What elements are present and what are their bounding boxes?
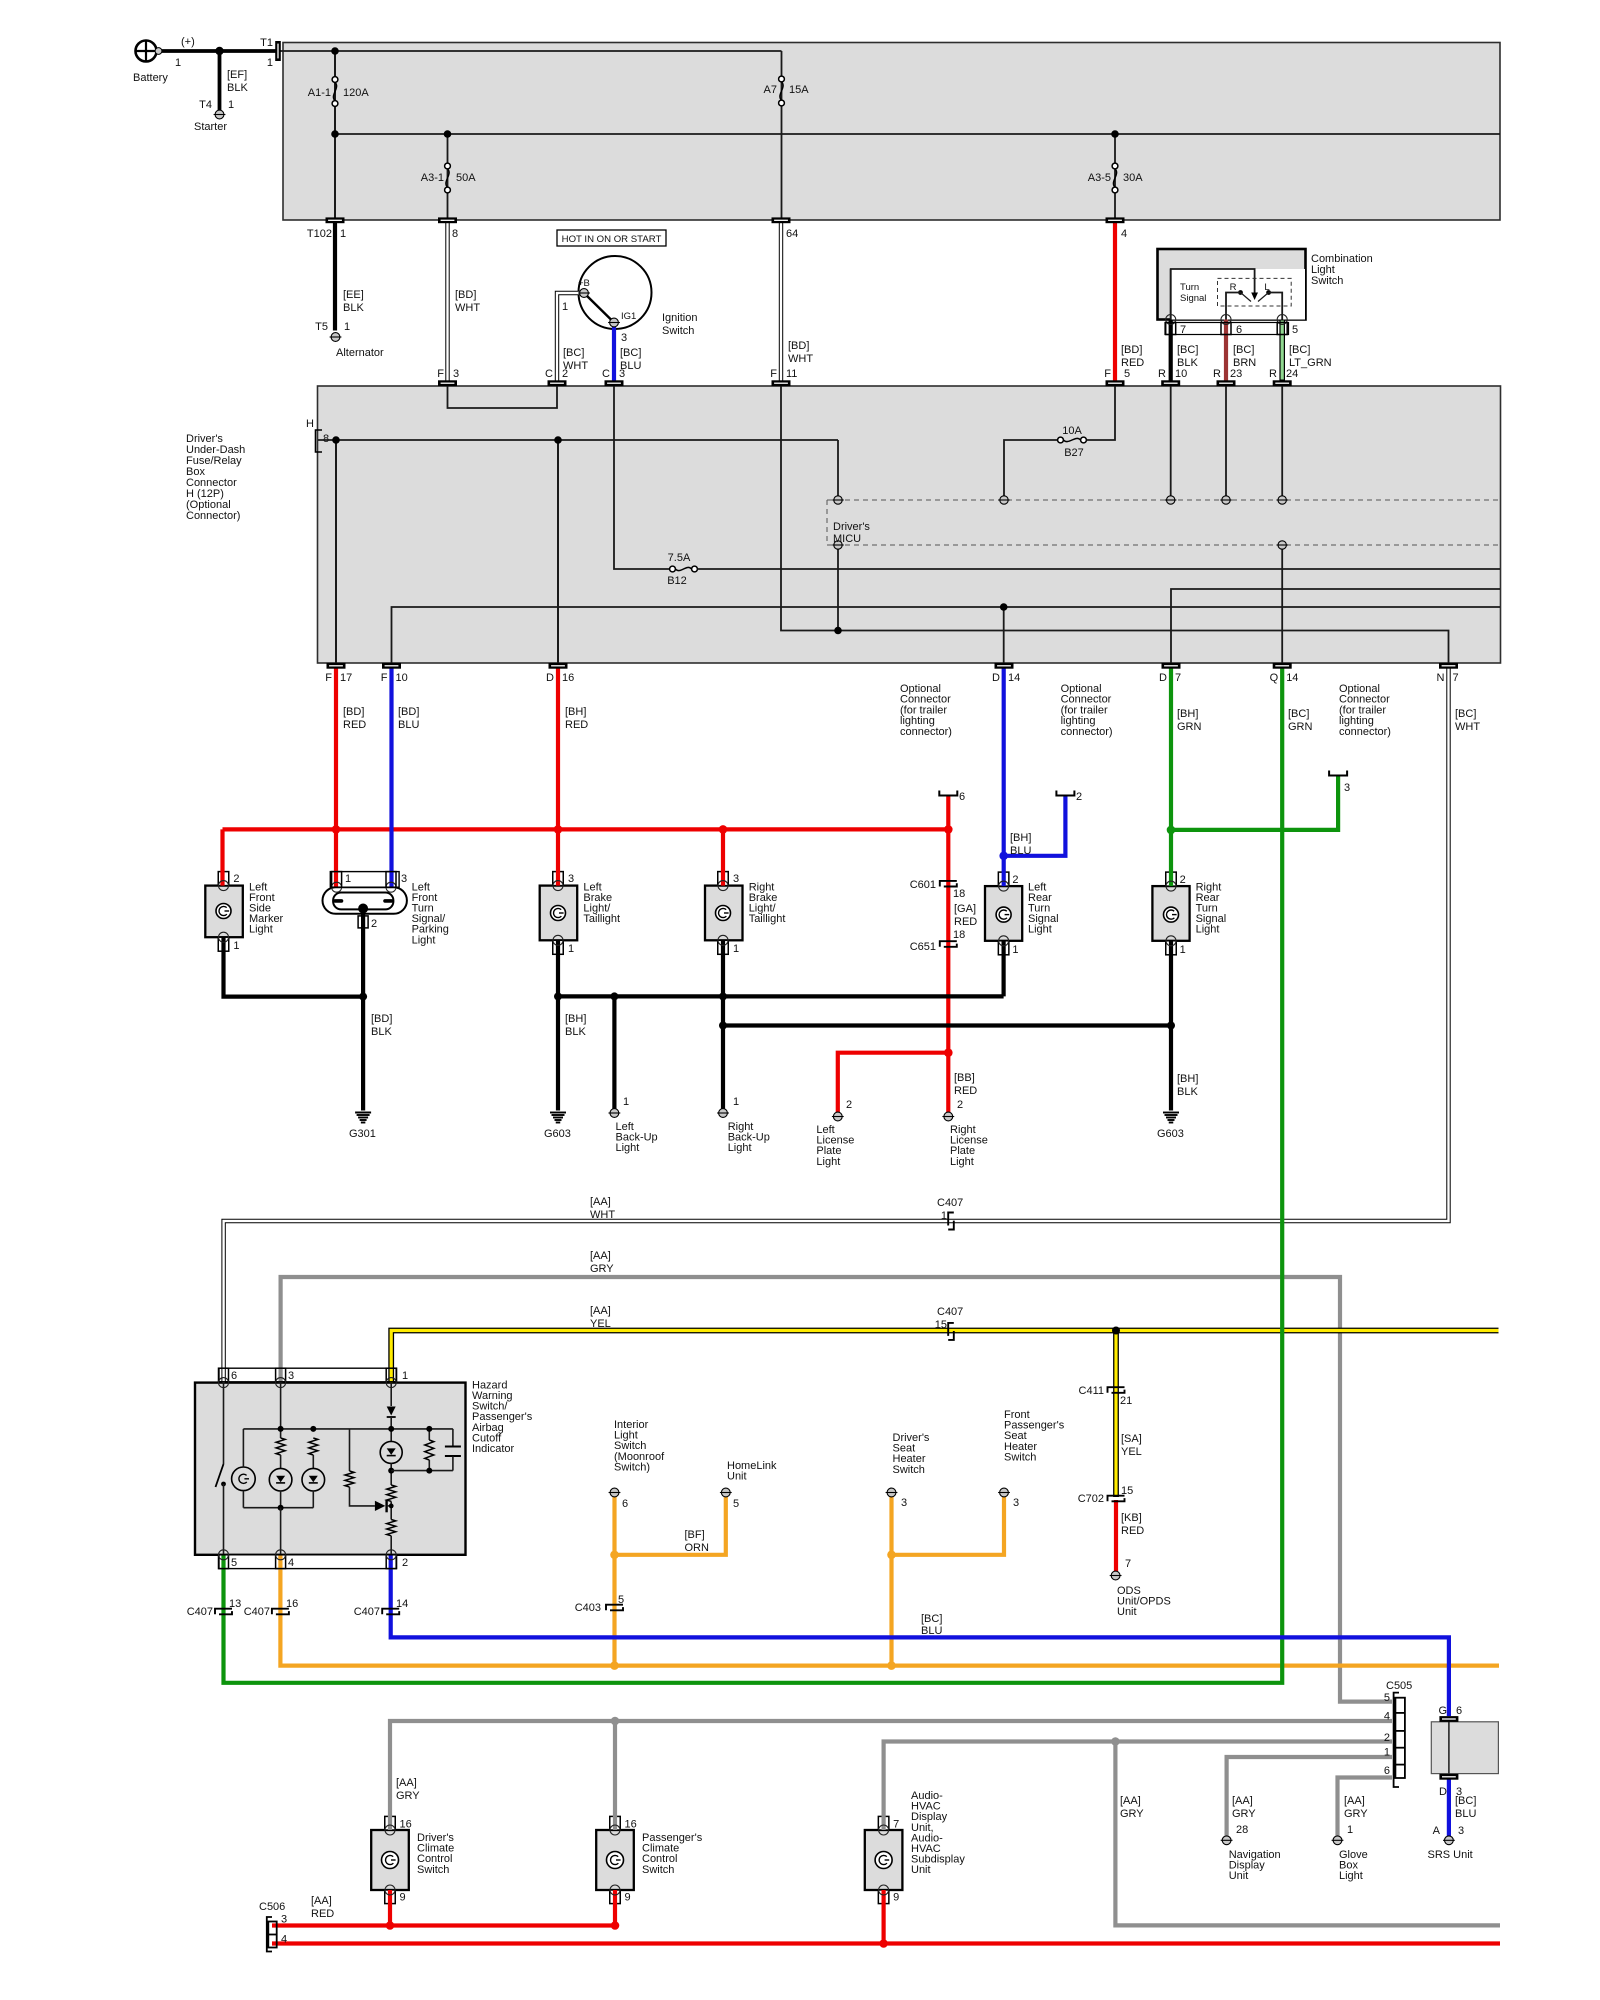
wire [BD] WHT 64 to F11 [779, 223, 783, 381]
connector D7 [1162, 663, 1181, 669]
connector 4 [1106, 217, 1125, 223]
pin box comb 5 [1277, 323, 1287, 335]
svg-text:6: 6 [231, 1370, 237, 1382]
wire turn pin1 drop [334, 829, 338, 887]
svg-text:R: R [1230, 282, 1237, 293]
svg-text:GRY: GRY [1232, 1808, 1256, 1820]
svg-text:Taillight: Taillight [583, 913, 620, 925]
wire [BC] BLU hazard pin2 run [391, 1555, 1449, 1716]
svg-text:[BC]: [BC] [1233, 344, 1254, 356]
bulb (right rear turn) [1164, 907, 1179, 922]
wire opt conn 2 branch [1004, 796, 1066, 856]
svg-text:[BC]: [BC] [1288, 708, 1309, 720]
connector R10 [1161, 380, 1180, 386]
svg-text:Light: Light [728, 1142, 752, 1154]
svg-text:L: L [1264, 282, 1269, 293]
wire: A3-1 fuse drop [447, 134, 449, 218]
svg-text:F: F [437, 368, 444, 380]
wire [AA] GRY climate bus to C505 pin4 [390, 1721, 1392, 1830]
filament tick left [335, 899, 342, 903]
svg-text:Switch: Switch [893, 1464, 925, 1476]
svg-text:IG1: IG1 [621, 311, 636, 322]
junction orange seat [887, 1551, 896, 1560]
junction orange interior [610, 1551, 619, 1560]
svg-text:Light: Light [412, 934, 436, 946]
pin box 1 lbrake [553, 940, 564, 954]
svg-text:[AA]: [AA] [1344, 1795, 1365, 1807]
svg-text:15: 15 [935, 1319, 947, 1331]
svg-text:Switch: Switch [662, 325, 694, 337]
hazard pin box 6 [219, 1368, 229, 1382]
junction lbrake bus [554, 992, 562, 1000]
hazard bottom strip [219, 1555, 397, 1569]
optional connector bracket 3 [1329, 771, 1347, 776]
MICU dashed left edge [826, 500, 828, 545]
transistor base bar [385, 1500, 387, 1513]
pin ring 2 lrear [999, 881, 1009, 891]
terminal ODS unit [1111, 1571, 1120, 1580]
connector C505 [1394, 1693, 1399, 1787]
svg-text:1: 1 [175, 57, 181, 69]
svg-text:HOT IN ON OR START: HOT IN ON OR START [562, 234, 662, 245]
hazard switch blade [216, 1464, 224, 1487]
svg-text:BLK: BLK [343, 302, 364, 314]
junction bus1 at A1-1 [331, 47, 339, 55]
svg-text:2: 2 [1076, 791, 1082, 803]
hazard pin box 2 [386, 1555, 396, 1569]
ground G603 left [550, 1112, 566, 1114]
svg-text:2: 2 [1180, 874, 1186, 886]
svg-text:1: 1 [1347, 1824, 1353, 1836]
svg-text:B12: B12 [667, 575, 687, 587]
svg-text:1: 1 [340, 228, 346, 240]
svg-text:YEL: YEL [590, 1318, 611, 1330]
turn signal inner white panel [1171, 269, 1305, 320]
hazard switch contact [221, 1482, 226, 1487]
junction rbrake bus1 [719, 992, 727, 1000]
resistor R3 [345, 1471, 354, 1487]
resistor R4 [387, 1485, 396, 1501]
svg-text:C407: C407 [354, 1606, 380, 1618]
svg-text:G603: G603 [544, 1128, 571, 1140]
svg-text:1: 1 [733, 943, 739, 955]
wire pin6 to R contact [1226, 293, 1241, 320]
svg-text:A7: A7 [764, 84, 777, 96]
connector F3 [438, 380, 457, 386]
connector D3 [1439, 1774, 1458, 1780]
pin box 3 front turn [386, 872, 396, 888]
MICU terminal 1 [834, 496, 842, 504]
wire rrear turn ground [1169, 941, 1173, 1111]
svg-text:3: 3 [453, 368, 459, 380]
pin ring 3 front turn [386, 882, 396, 892]
fuse A1-1 120A [332, 77, 338, 83]
svg-text:3: 3 [1458, 1825, 1464, 1837]
pin ring 1 rrear [1166, 936, 1176, 946]
ground G603 right [1163, 1112, 1179, 1114]
bus B12 to right edge [698, 568, 1501, 570]
junction marker/lamp ground [359, 993, 367, 1001]
wire battery positive to T1 [160, 49, 277, 53]
svg-text:18: 18 [953, 929, 965, 941]
junction bus2 at A3-1 [444, 130, 452, 138]
connector C3 [605, 380, 624, 386]
hazard pin ring 3 [276, 1378, 286, 1388]
LED3 airbag cutoff indicator [380, 1441, 402, 1463]
svg-text:1: 1 [267, 57, 273, 69]
pin ring 1 rbrake [718, 935, 728, 945]
svg-text:Taillight: Taillight [749, 913, 786, 925]
svg-text:connector): connector) [1061, 726, 1113, 738]
svg-text:BLU: BLU [398, 719, 419, 731]
hazard wire pin5 [223, 1484, 225, 1555]
wire [BC] BLU to SRS unit [1447, 1780, 1451, 1837]
wire seat heater driver drop [889, 1497, 893, 1666]
svg-text:64: 64 [786, 228, 798, 240]
pin ring 3 lbrake [553, 881, 563, 891]
hazard lower right rail [391, 1470, 453, 1472]
svg-text:[BC]: [BC] [921, 1613, 942, 1625]
inline connector C411 [1108, 1387, 1125, 1393]
svg-text:Light: Light [616, 1142, 640, 1154]
wire [AA] GRY hazard pin3 to C505 pin5 [281, 1277, 1392, 1702]
svg-text:WHT: WHT [455, 302, 480, 314]
svg-text:[SA]: [SA] [1121, 1433, 1142, 1445]
svg-text:Light: Light [1028, 924, 1052, 936]
wire through SRS box [1448, 1722, 1450, 1774]
svg-text:C601: C601 [910, 879, 936, 891]
svg-text:connector): connector) [900, 726, 952, 738]
svg-text:1: 1 [568, 943, 574, 955]
connector F17 [327, 663, 346, 669]
svg-text:Alternator: Alternator [336, 347, 384, 359]
wire [BD] BLU F10 [389, 669, 393, 888]
terminal +B [580, 289, 589, 298]
wire Q14 drop [1281, 549, 1283, 663]
junction battery/starter [215, 47, 223, 55]
wire [AA] GRY branch to bottom right [1115, 1742, 1500, 1926]
pin ring 3 rbrake [718, 881, 728, 891]
svg-text:C702: C702 [1078, 1493, 1104, 1505]
svg-text:(+): (+) [181, 36, 195, 48]
right brake light box [705, 886, 743, 941]
junction bus2 at A3-5 [1111, 130, 1119, 138]
left front side marker light box [205, 886, 243, 938]
svg-text:5: 5 [1292, 324, 1298, 336]
MICU terminal 6 [834, 541, 842, 549]
wire pin7 inside box [1170, 269, 1172, 320]
svg-text:[AA]: [AA] [590, 1250, 611, 1262]
bulb (left rear turn) [996, 907, 1011, 922]
svg-text:30A: 30A [1123, 172, 1143, 184]
svg-text:2: 2 [1384, 1732, 1390, 1744]
svg-text:6: 6 [622, 1498, 628, 1510]
svg-text:MICU: MICU [833, 533, 861, 545]
wire LED1 to bottom rail [280, 1491, 282, 1508]
svg-text:3: 3 [568, 873, 574, 885]
svg-text:Switch): Switch) [614, 1461, 650, 1473]
svg-text:18: 18 [953, 888, 965, 900]
wire [BC] WHT N7 to hazard pin 6 [224, 669, 1449, 1383]
svg-text:50A: 50A [456, 172, 476, 184]
svg-text:Driver's: Driver's [833, 521, 870, 533]
switch blade R [1241, 293, 1252, 302]
pin ring 1 marker [219, 932, 229, 942]
wire R3 to diode [350, 1487, 375, 1506]
svg-text:4: 4 [288, 1557, 294, 1569]
svg-text:Light: Light [816, 1156, 840, 1168]
hazard pin ring 6 [219, 1378, 229, 1388]
MICU dashed line 2 [827, 544, 1500, 546]
junction yellow branch [1112, 1327, 1120, 1335]
svg-text:[AA]: [AA] [1120, 1795, 1141, 1807]
inline connector C407 pin16 [272, 1609, 289, 1615]
pin box 7 audio [878, 1816, 889, 1830]
svg-text:T102: T102 [307, 228, 332, 240]
terminal right license [944, 1112, 953, 1121]
ground G301 [355, 1112, 371, 1114]
svg-text:[BH]: [BH] [1010, 832, 1031, 844]
pin box comb 6 [1221, 323, 1231, 335]
MICU terminal 2 [1000, 496, 1008, 504]
connector D16 [549, 663, 568, 669]
svg-text:BLK: BLK [1177, 1086, 1198, 1098]
svg-text:Q: Q [1270, 672, 1279, 684]
junction D14/bus [1000, 603, 1008, 611]
junction gray climate [611, 1717, 620, 1726]
junction rail pin3 [278, 1426, 284, 1432]
fuse B12 7.5A [670, 566, 676, 572]
svg-text:D: D [1439, 1786, 1447, 1798]
svg-text:8: 8 [323, 433, 329, 445]
junction green opt [1167, 826, 1176, 835]
svg-text:[BD]: [BD] [788, 340, 809, 352]
pin box 1 rbrake [718, 940, 729, 954]
svg-text:Switch: Switch [417, 1864, 449, 1876]
label box HOT IN ON OR START [557, 230, 666, 246]
wire rbrake to right backup [721, 940, 725, 1108]
wire R1 to LED1 [280, 1455, 282, 1469]
svg-text:C411: C411 [1079, 1385, 1104, 1397]
pin box 9 passenger climate [610, 1890, 621, 1904]
terminal T5 alternator [331, 333, 340, 342]
ignition switch lever [584, 293, 614, 323]
pin box 1 lrear [998, 941, 1009, 955]
fuse A3-5 30A [1112, 163, 1118, 169]
svg-text:1: 1 [941, 1210, 947, 1222]
svg-text:C407: C407 [937, 1306, 963, 1318]
hazard pin ring 2 [386, 1550, 396, 1560]
wire: A7 fuse drop [781, 51, 783, 218]
wire R5 to pin2 [390, 1536, 392, 1555]
junction backup left [610, 992, 618, 1000]
svg-text:14: 14 [1008, 672, 1020, 684]
junction orange bus seat [887, 1661, 896, 1670]
svg-text:Switch: Switch [642, 1864, 674, 1876]
svg-text:D: D [1159, 672, 1167, 684]
svg-text:A: A [1433, 1825, 1441, 1837]
diode D1 [387, 1407, 396, 1416]
pin ring passenger climate bottom [610, 1885, 620, 1895]
svg-text:3: 3 [1013, 1497, 1019, 1509]
svg-text:RED: RED [311, 1908, 334, 1920]
junction D16/H bus [554, 436, 562, 444]
svg-text:G301: G301 [349, 1128, 376, 1140]
svg-text:RED: RED [343, 719, 366, 731]
svg-text:SRS Unit: SRS Unit [1428, 1849, 1473, 1861]
inline connector C407 pin14 [382, 1609, 399, 1615]
svg-text:10: 10 [396, 672, 408, 684]
svg-text:Unit: Unit [911, 1864, 931, 1876]
svg-text:Indicator: Indicator [472, 1443, 515, 1455]
hazard pin ring 4 [276, 1550, 286, 1560]
junction transistor node [389, 1504, 394, 1509]
junction red driver climate [386, 1921, 395, 1930]
svg-text:[GA]: [GA] [954, 903, 976, 915]
connector H bracket [316, 430, 323, 452]
svg-text:4: 4 [1384, 1711, 1390, 1723]
pin box 2 rrear [1166, 872, 1177, 886]
wire R6 top lead [428, 1429, 430, 1440]
connector T1 [275, 41, 281, 61]
optional connector bracket 6 [939, 791, 957, 796]
wire to G301 [361, 997, 365, 1111]
hazard lamp bottom lead [242, 1491, 244, 1508]
wire: battery bus T1 to A7 [278, 50, 782, 52]
switch blade L [1258, 293, 1269, 302]
resistor R1 [276, 1438, 285, 1455]
svg-text:7: 7 [1453, 672, 1459, 684]
pin ring 1 lrear [999, 936, 1009, 946]
wire R4 to R5 [390, 1501, 392, 1519]
wire rbrake pin3 drop [721, 829, 725, 885]
svg-text:[BC]: [BC] [1455, 1795, 1476, 1807]
svg-text:14: 14 [396, 1598, 408, 1610]
svg-text:6: 6 [959, 791, 965, 803]
svg-text:[AA]: [AA] [1232, 1795, 1253, 1807]
svg-text:9: 9 [625, 1892, 631, 1904]
wire MICU drop from H bus [837, 440, 839, 496]
junction F17/H bus [332, 436, 340, 444]
svg-text:1: 1 [345, 873, 351, 885]
junction blue opt [999, 852, 1008, 861]
pin box 1 front turn [332, 872, 342, 888]
bus D7 [1171, 589, 1500, 663]
svg-text:C506: C506 [259, 1901, 285, 1913]
connector Q14 [1273, 663, 1292, 669]
terminal passenger seat heater [1000, 1488, 1009, 1497]
terminal homelink unit [721, 1488, 730, 1497]
wire homelink link [615, 1497, 726, 1555]
right rear turn signal light box [1152, 886, 1189, 941]
svg-text:BLU: BLU [921, 1625, 942, 1637]
junction red rbrake [719, 825, 728, 834]
svg-text:+B: +B [578, 278, 590, 289]
svg-text:2: 2 [846, 1099, 852, 1111]
svg-text:13: 13 [229, 1598, 241, 1610]
wire lbrake ground [556, 940, 560, 1110]
wire [BH] GRN D7 [1169, 669, 1173, 887]
pin box 2 front turn [358, 916, 368, 928]
pin ring comb 6 [1221, 315, 1231, 325]
wire B27 to F5 [1087, 386, 1116, 440]
wire nav display to C505 pin1 [1227, 1757, 1392, 1836]
wire [BC] BLU IG1 to C3 [612, 327, 616, 381]
wire [BC] BRN pin6 to R23 [1224, 320, 1228, 381]
svg-text:120A: 120A [343, 87, 369, 99]
svg-text:BLU: BLU [1455, 1808, 1476, 1820]
pin ring 1 front turn [332, 882, 342, 892]
svg-text:C407: C407 [937, 1197, 963, 1209]
svg-text:10A: 10A [1062, 425, 1082, 437]
inline connector C403 [606, 1605, 623, 1611]
connector N7 [1439, 663, 1458, 669]
svg-text:connector): connector) [1339, 726, 1391, 738]
svg-text:16: 16 [562, 672, 574, 684]
bus F10 [392, 607, 1501, 663]
junction orange bus interior [610, 1661, 619, 1670]
left rear turn signal light box [985, 886, 1022, 941]
hazard bottom rail [243, 1507, 313, 1509]
fuse box: battery distribution (gray) [283, 43, 1500, 221]
pin ring comb 5 [1277, 315, 1287, 325]
svg-text:5: 5 [1124, 368, 1130, 380]
svg-text:ORN: ORN [685, 1542, 710, 1554]
pin box 2 marker [218, 872, 229, 886]
svg-text:T4: T4 [199, 99, 212, 111]
wire [SA] YEL drop to C702 [1113, 1331, 1119, 1498]
wire rail to R3 [349, 1429, 351, 1471]
wire B27 leg [1004, 440, 1058, 496]
wire D1 to junction [390, 1417, 392, 1441]
svg-text:Switch: Switch [1311, 275, 1343, 287]
svg-text:6: 6 [1384, 1765, 1390, 1777]
svg-text:2: 2 [402, 1557, 408, 1569]
svg-text:3: 3 [1344, 782, 1350, 794]
hazard lamp top lead [242, 1429, 244, 1467]
svg-text:9: 9 [400, 1892, 406, 1904]
wire R23 drop [1225, 386, 1227, 496]
connector T102 [326, 217, 345, 223]
pin box 1 marker [218, 937, 229, 951]
red bus front/rear lights [223, 827, 949, 831]
resistor R6 [425, 1440, 434, 1460]
svg-text:3: 3 [401, 873, 407, 885]
junction R6 top [426, 1426, 432, 1432]
terminal driver seat heater [887, 1488, 896, 1497]
wire [BC] WHT ignition +B to C2 [557, 293, 580, 381]
terminal T4 starter [215, 110, 224, 119]
wire [BC] LT_GRN pin5 to R24 [1279, 320, 1285, 381]
svg-text:GRN: GRN [1177, 721, 1202, 733]
svg-text:23: 23 [1230, 368, 1242, 380]
connector R23 [1217, 380, 1236, 386]
MICU terminal 4 [1222, 496, 1230, 504]
svg-text:Battery: Battery [133, 72, 168, 84]
inline connector C407 pin1 [948, 1213, 954, 1226]
wire [BC] BLK pin7 to R10 [1169, 320, 1173, 381]
MICU terminal 7 [1278, 541, 1286, 549]
svg-text:8: 8 [452, 228, 458, 240]
wire [AA] ORN hazard pin4 run [280, 1555, 1499, 1666]
junction gray audio [1111, 1737, 1120, 1746]
svg-text:10: 10 [1175, 368, 1187, 380]
ground bus rear left [558, 994, 1004, 998]
wire left license branch [838, 1053, 949, 1113]
svg-text:2: 2 [371, 918, 377, 930]
svg-text:WHT: WHT [1455, 721, 1480, 733]
pin box 9 audio [878, 1890, 889, 1904]
